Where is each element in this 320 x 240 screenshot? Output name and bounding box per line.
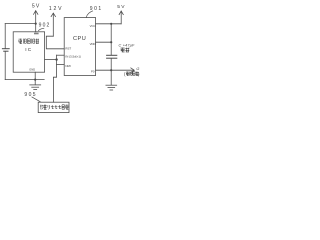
ground (left)	[30, 80, 41, 90]
junction dot	[35, 23, 37, 25]
svg-text:IC: IC	[25, 47, 32, 53]
svg-text:VDD: VDD	[90, 42, 96, 46]
text denkai (electrolytic)	[121, 48, 130, 52]
wire 12V to CPU	[46, 36, 64, 49]
wire 5V feed to monitor IC	[5, 23, 36, 25]
svg-text:901: 901	[90, 6, 103, 12]
junction dot	[110, 69, 112, 71]
node 5V (left supply)	[34, 11, 38, 32]
wire down to reset circuit	[53, 65, 56, 103]
wire left rail lower	[4, 52, 6, 80]
leader 901	[86, 11, 93, 18]
node 5V (right supply)	[119, 11, 123, 24]
text initial reset circuit	[40, 105, 68, 110]
text power-supervisor kanji row	[19, 39, 40, 44]
svg-text:905: 905	[24, 92, 37, 98]
junction dot	[110, 23, 112, 25]
pin number smudge	[34, 33, 39, 35]
svg-text:NMI: NMI	[65, 64, 70, 68]
svg-text:GND: GND	[29, 68, 35, 72]
node 12V (supply)	[51, 13, 55, 36]
wire ground rail	[5, 79, 44, 81]
wire monitor IC ground pin	[34, 72, 36, 79]
svg-text:CPU: CPU	[73, 36, 86, 42]
wire monitor IC output	[45, 59, 57, 61]
svg-text:P0: P0	[91, 70, 95, 74]
svg-text:C +47μF: C +47μF	[119, 43, 136, 47]
junction dot	[34, 79, 36, 81]
wire cap to output line	[110, 58, 112, 70]
junction dot	[55, 58, 57, 60]
svg-text:VCC: VCC	[90, 24, 96, 28]
capacitor C1 47uF	[107, 55, 117, 58]
wire CPU output to C	[96, 69, 134, 71]
wire fork to CPU RST/NMI	[56, 55, 58, 64]
leader 905	[32, 97, 41, 102]
wire to ground (right)	[110, 70, 112, 85]
arrowhead output	[131, 68, 135, 73]
svg-text:IN (3,5d(+1): IN (3,5d(+1)	[65, 54, 81, 58]
CPU U901	[64, 18, 95, 76]
ground (right)	[106, 85, 117, 90]
svg-text:RST: RST	[65, 46, 71, 50]
svg-text:5V: 5V	[32, 4, 41, 10]
svg-text:12V: 12V	[49, 6, 63, 12]
initial reset circuit 905	[38, 102, 69, 112]
leader 902	[38, 28, 44, 31]
wire capacitor trunk	[110, 24, 112, 55]
svg-text:902: 902	[39, 23, 51, 29]
svg-text:5V: 5V	[117, 4, 126, 10]
wire CPU Vdd sense	[96, 41, 112, 43]
wire CPU Vcc to 5V	[96, 23, 122, 25]
junction dot	[110, 41, 112, 43]
battery B1	[2, 49, 9, 52]
wire left rail upper	[4, 24, 6, 49]
power-supervisor IC 902	[13, 32, 44, 72]
svg-text:G: G	[136, 66, 139, 71]
